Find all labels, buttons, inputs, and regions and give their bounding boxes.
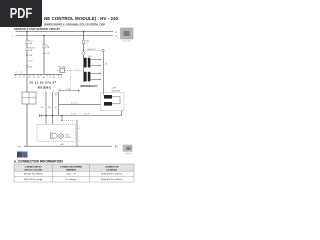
svg-text:E07 (E29-1): E07 (E29-1) — [38, 87, 52, 90]
svg-text:85: 85 — [38, 77, 40, 79]
junction block 2x2 grid — [22, 92, 36, 104]
svg-text:E29 (47 Pin, White): E29 (47 Pin, White) — [24, 173, 43, 176]
svg-text:4: 4 — [61, 77, 62, 79]
svg-text:PDF: PDF — [10, 6, 33, 22]
svg-text:30 31 85 87a 87: 30 31 85 87a 87 — [30, 80, 57, 84]
svg-text:1: 1 — [37, 91, 38, 93]
connector information table — [14, 164, 134, 182]
svg-text:E30 (18 Pin, Gray): E30 (18 Pin, Gray) — [24, 178, 42, 181]
node junction at bus2 x83.5 — [83, 31, 85, 33]
connector circle on relay feed — [82, 52, 85, 55]
svg-text:a. CONNECTOR INFORMATION: a. CONNECTOR INFORMATION — [14, 160, 63, 164]
svg-text:NE CONTROL MODULE) : HV - 240: NE CONTROL MODULE) : HV - 240 — [44, 16, 118, 22]
svg-text:0.5 W: 0.5 W — [84, 114, 89, 116]
svg-text:2: 2 — [47, 77, 48, 79]
pin ticks at ECM lower edge — [54, 93, 56, 96]
connector tick on x44 — [43, 53, 51, 55]
CMP internal wires — [112, 96, 120, 98]
ground bus line — [24, 145, 112, 147]
svg-text:B2: B2 — [115, 36, 117, 38]
fuse F4 10A on x83.5 — [83, 39, 90, 44]
svg-text:0.5 B: 0.5 B — [71, 114, 76, 116]
wire bus B+ (top horizontal) — [16, 31, 114, 33]
fuse F2 50A on x27 — [26, 46, 35, 52]
svg-text:wire color: wire color — [123, 40, 131, 42]
wire vertical drop x27 — [26, 32, 28, 147]
wire arrow pin 2 — [91, 65, 101, 67]
svg-text:B1: B1 — [115, 32, 117, 34]
wire arrow pin 4 — [91, 79, 101, 81]
svg-text:1.25B: 1.25B — [66, 89, 71, 91]
CKP coil circle — [52, 133, 57, 138]
svg-text:12: 12 — [23, 77, 25, 79]
svg-text:(PIN NO, COLOR): (PIN NO, COLOR) — [25, 169, 43, 171]
PDF badge — [0, 0, 42, 27]
legend grid box bottom right — [123, 145, 133, 155]
pin ticks on ECM bus — [16, 74, 63, 76]
wire bus IG (second horizontal) — [16, 35, 114, 37]
svg-text:6: 6 — [19, 77, 20, 79]
wire dashed vertical x70.5 — [70, 71, 72, 91]
svg-text:88: 88 — [53, 77, 55, 79]
wire vertical x103.5 to CMP sensor — [103, 52, 105, 93]
connector inline on x27 — [26, 65, 33, 68]
wire vertical x77 shield drain to ground — [76, 120, 78, 146]
node junction at bus2 x44 — [43, 35, 45, 37]
svg-text:F1: F1 — [85, 43, 87, 45]
wire vertical x52.5 — [52, 92, 54, 133]
svg-text:30: 30 — [29, 77, 31, 79]
svg-text:SENSOR & CMP SENSOR CIRCUIT: SENSOR & CMP SENSOR CIRCUIT — [14, 27, 60, 31]
fuse F3 15A on x44 — [43, 44, 50, 49]
pin labels above verticals — [37, 91, 60, 93]
wire ECM to relay switch lower — [59, 90, 81, 92]
wire vertical x58.5 — [58, 92, 60, 116]
svg-text:harness: harness — [125, 153, 131, 155]
wire dashed shield jog — [62, 119, 77, 121]
svg-text:CONNECTOR: CONNECTOR — [105, 166, 119, 168]
wire vertical x121.5 from CMP box — [121, 111, 123, 116]
ground right end tick — [115, 145, 117, 148]
svg-text:Behind IP Fuse Block: Behind IP Fuse Block — [101, 179, 123, 181]
CMP sensor box — [101, 88, 125, 111]
svg-text:CONNECTING WIRING: CONNECTING WIRING — [60, 166, 83, 168]
relay winding a1 — [84, 58, 87, 68]
svg-text:SNSR: SNSR — [65, 137, 71, 139]
svg-text:LOCATION: LOCATION — [106, 168, 117, 171]
svg-text:0.5L: 0.5L — [58, 89, 62, 91]
svg-text:CMP: CMP — [112, 88, 117, 90]
svg-text:OWER SUPPLY, GROUND, ECU SYSTE: OWER SUPPLY, GROUND, ECU SYSTEM, CKP — [44, 22, 105, 26]
wire ECM connector bus — [14, 73, 62, 75]
svg-text:31: 31 — [33, 77, 35, 79]
pin numbers under ECM bus — [15, 77, 63, 79]
svg-text:CONNECTOR NO: CONNECTOR NO — [25, 166, 42, 168]
CKP sensor box — [37, 125, 76, 142]
svg-text:Behind IP Fuse Block: Behind IP Fuse Block — [101, 174, 123, 176]
wire CKP/CMP return — [39, 115, 122, 117]
legend grid box top right — [121, 28, 134, 42]
wire vertical x46 — [45, 92, 47, 133]
CMP element 1 — [104, 95, 112, 99]
svg-text:14: 14 — [20, 72, 22, 74]
relay winding a2 — [88, 58, 91, 68]
wire arrow pin 1 — [91, 59, 101, 61]
svg-text:87: 87 — [50, 77, 52, 79]
wire vertical drop x83.5 feeding main relay — [83, 32, 85, 82]
wire relay switch branch — [57, 70, 84, 72]
svg-text:RLY SW: RLY SW — [58, 67, 66, 69]
svg-text:2: 2 — [53, 91, 54, 93]
svg-text:SENSOR: SENSOR — [112, 90, 121, 92]
wire CMP signal — [59, 103, 101, 105]
CMP element 2 — [104, 102, 112, 106]
node junction at bus1 x27 — [26, 31, 28, 33]
svg-text:.5W: .5W — [48, 107, 51, 109]
CKP pickup bracket — [50, 133, 52, 139]
CKP rotor crossed circle — [59, 134, 64, 139]
wire vertical drop x44 — [43, 36, 45, 75]
relay winding b1 — [84, 72, 87, 82]
switch S1 box — [60, 68, 65, 73]
svg-text:MAIN RLY: MAIN RLY — [88, 48, 98, 51]
wire dashed relay coil feed — [84, 50, 102, 52]
connector E28 tick on x27 — [26, 54, 33, 57]
photo icon — [17, 152, 28, 158]
node junction dots on return wire — [45, 115, 47, 117]
svg-text:(E07): (E07) — [88, 56, 93, 58]
svg-text:5: 5 — [15, 77, 16, 79]
svg-text:0.5 Gr: 0.5 Gr — [71, 102, 77, 104]
svg-text:3: 3 — [58, 77, 59, 79]
wire vertical x62 into CKP box — [61, 116, 63, 121]
svg-text:(MAIN RELAY): (MAIN RELAY) — [81, 85, 98, 88]
svg-text:1: 1 — [105, 90, 106, 92]
svg-text:IP - Engine: IP - Engine — [66, 179, 78, 181]
relay winding b2 — [88, 72, 91, 82]
svg-text:86: 86 — [43, 77, 45, 79]
svg-text:12: 12 — [15, 72, 17, 74]
fuse F1 10A on x27 — [26, 39, 33, 44]
wire color labels on verticals — [41, 107, 58, 109]
wire arrow pin 3 — [91, 73, 101, 75]
node circle at relay output — [102, 49, 104, 51]
connector tick on that wire — [78, 89, 80, 92]
svg-text:E28: E28 — [29, 66, 32, 68]
inline connector ticks on return wire — [40, 114, 42, 117]
svg-text:Floor - IP: Floor - IP — [67, 173, 77, 176]
svg-text:HARNESS: HARNESS — [66, 168, 77, 171]
